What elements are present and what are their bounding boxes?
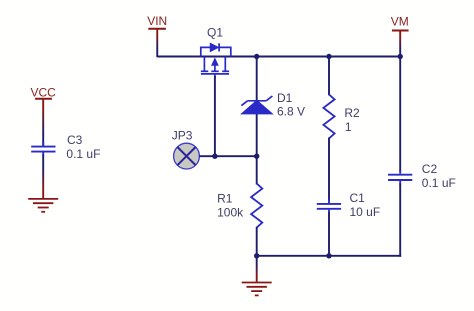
- capacitor C3: [31, 142, 55, 156]
- diode D1 (zener 6.8 V): [241, 96, 272, 114]
- junction top of D1: [254, 54, 259, 59]
- svg-text:VIN: VIN: [147, 14, 167, 28]
- svg-text:0.1 uF: 0.1 uF: [422, 176, 456, 190]
- transistor Q1: [201, 43, 231, 78]
- junction gate wire on JP3 wire: [212, 154, 217, 159]
- jumper JP3: [174, 143, 200, 169]
- svg-text:R1: R1: [217, 191, 233, 205]
- svg-text:10 uF: 10 uF: [350, 205, 381, 219]
- capacitor C2: [388, 170, 412, 185]
- svg-text:100k: 100k: [217, 205, 244, 219]
- wire VCC to C3: [42, 99, 44, 147]
- junction top of R2: [326, 54, 331, 59]
- wire VM supply stub: [399, 31, 401, 58]
- junction C1 at bottom rail: [326, 253, 331, 258]
- svg-text:C1: C1: [350, 191, 366, 205]
- wire C1 to bottom rail: [328, 213, 330, 256]
- junction top rail at VM: [398, 54, 403, 59]
- junction R1 at bottom rail: [254, 253, 259, 258]
- wire Q1 gate to node: [214, 76, 216, 156]
- ground (GND under bottom rail): [242, 283, 272, 296]
- svg-text:C3: C3: [67, 133, 83, 147]
- wire R2 top: [328, 57, 330, 96]
- wire D1 column: [256, 57, 258, 157]
- svg-text:JP3: JP3: [172, 128, 193, 142]
- svg-text:R2: R2: [344, 106, 360, 120]
- svg-text:0.1 uF: 0.1 uF: [66, 147, 100, 161]
- resistor R2: [323, 94, 334, 138]
- wire bottom rail: [257, 255, 401, 257]
- wire bottom rail to ground: [256, 256, 258, 282]
- ground (GND under C3): [28, 199, 58, 212]
- wire R2 to C1: [328, 138, 330, 201]
- wire R1 to bottom rail: [256, 227, 258, 256]
- supply symbol VCC: [31, 86, 57, 100]
- capacitor C1: [317, 199, 341, 213]
- wire node to R1: [256, 156, 258, 184]
- svg-text:6.8 V: 6.8 V: [277, 105, 305, 119]
- svg-text:VCC: VCC: [31, 86, 57, 100]
- wire VM to C2: [399, 57, 401, 172]
- supply symbol VIN: [147, 14, 167, 29]
- svg-text:Q1: Q1: [207, 25, 223, 39]
- wire VIN supply stub: [156, 29, 158, 57]
- svg-text:1: 1: [345, 120, 352, 134]
- resistor R1: [251, 184, 262, 228]
- svg-text:D1: D1: [277, 91, 293, 105]
- svg-text:C2: C2: [422, 162, 438, 176]
- svg-text:VM: VM: [391, 15, 409, 29]
- wire JP3 to D1/R1 node: [199, 155, 256, 157]
- wire top rail VIN to VM: [157, 56, 400, 58]
- supply symbol VM: [391, 15, 409, 31]
- junction D1 anode / R1 top: [254, 154, 259, 159]
- wire C2 to bottom rail: [399, 184, 401, 257]
- wire C3 to ground: [42, 155, 44, 199]
